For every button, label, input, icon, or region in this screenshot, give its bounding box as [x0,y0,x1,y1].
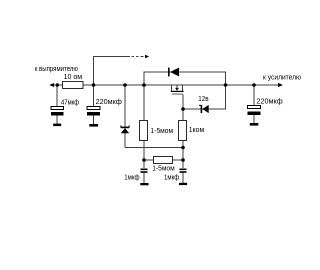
wire dashed continuation [132,56,145,58]
svg-text:220мкф: 220мкф [96,97,122,106]
resistor 1-5мом vertical [140,121,148,141]
svg-text:47мкф: 47мкф [61,97,79,106]
capacitor 1мкф right [179,169,187,186]
terminal arrow left (к выпрямителю) [49,83,54,87]
resistor 1-5мом horizontal [154,157,173,164]
terminal arrow right (к усилителю) [278,83,283,87]
resistor 10 ом [63,82,84,89]
wire R1 branch x=144 [143,85,145,121]
wire left zener branch [124,85,126,127]
wire riser to dashed arrow [94,57,131,86]
svg-text:220мкф: 220мкф [256,97,282,106]
svg-text:1-5мом: 1-5мом [151,126,174,135]
svg-text:1ком: 1ком [189,125,205,134]
wire 220uF right tap [253,85,255,106]
wire zener 12v branch y=109 [183,85,226,109]
resistor 1ком vertical [179,121,187,141]
transistor VT1 (MOSFET) [171,85,184,95]
wire bottom resistor rail y=160 [144,159,183,161]
capacitor 47мкф [51,107,64,127]
svg-text:1-5мом: 1-5мом [152,164,175,173]
wire node line y=147.5 [125,147,183,149]
capacitor 220мкф left [87,107,100,127]
arrow dashed line end [145,55,149,59]
svg-text:1мкф: 1мкф [124,172,139,181]
wire 47uF tap [56,85,58,107]
zener diode 12в (points left) [199,105,209,113]
svg-text:10 ом: 10 ом [64,72,83,81]
wire 220uF left tap [93,85,95,107]
svg-text:12в: 12в [198,94,208,103]
wire main horizontal rail y=85 [50,84,279,86]
svg-text:к усилителю: к усилителю [263,73,301,82]
svg-text:1мкф: 1мкф [164,173,179,182]
capacitor 1мкф left [140,169,148,186]
diode top loop (points left) [168,68,179,77]
wire diode loop [144,72,226,85]
capacitor 220мкф right [248,106,261,126]
wire gate branch x=183 [182,95,184,121]
node dots [56,83,256,162]
zener diode left branch (points up) [120,125,129,133]
